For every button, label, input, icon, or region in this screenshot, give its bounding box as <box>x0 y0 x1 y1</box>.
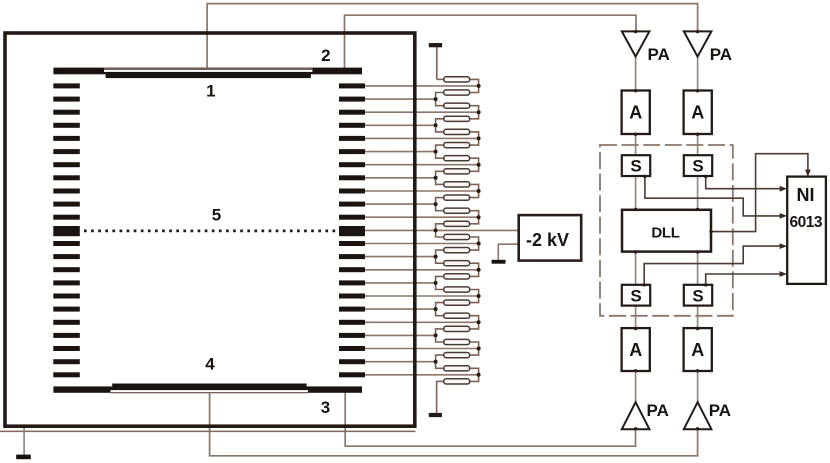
electrode ring 10 right segment <box>339 202 365 207</box>
electrode ring 22 right segment <box>339 359 365 364</box>
wire chain stub right R3-R4 <box>470 106 479 119</box>
electrode ring 1 left segment <box>53 83 80 88</box>
node n6 junction <box>434 150 438 154</box>
electrode ring 7 right segment <box>339 162 365 167</box>
switch S upper-right <box>684 155 712 176</box>
wire S to DLL (top) <box>635 176 637 210</box>
node n19 junction <box>477 320 481 324</box>
node n18 junction <box>434 307 438 311</box>
wire chain stub right R7-R8 <box>470 158 479 171</box>
electrode ring 14 right segment <box>339 254 365 259</box>
resistor R20 <box>444 326 470 331</box>
wire ring 1 to chain node n1 <box>365 85 479 87</box>
amplifier A lower-right <box>684 328 712 371</box>
electrode ring 4 left segment <box>53 123 80 128</box>
electrode ring 11 right segment <box>339 215 365 220</box>
electrode plate 2 (top outer) <box>53 68 362 75</box>
resistor R12 <box>444 221 470 226</box>
svg-text:1: 1 <box>206 81 215 100</box>
resistor R11 <box>444 208 470 213</box>
node n20 junction <box>434 333 438 337</box>
amplifier A upper-left <box>622 91 650 135</box>
electrode ring 9 right segment <box>339 189 365 194</box>
electrode ring 17 right segment <box>339 294 365 299</box>
switch S lower-right <box>684 285 712 306</box>
node n7 junction <box>477 163 481 167</box>
svg-text:PA: PA <box>647 401 669 420</box>
wire ring 5 (extraction grid) node n12 to -2 kV supply <box>365 229 519 231</box>
node n9 junction <box>477 189 481 193</box>
wire W4 electrode 4 to bottom-right PA <box>210 390 698 456</box>
electrode ring 5 right segment <box>339 136 365 141</box>
electrode 5 grid left segment <box>53 226 80 236</box>
svg-text:6013: 6013 <box>790 214 823 231</box>
node n21 junction <box>477 347 481 351</box>
wire chain stub right R1-R2 <box>470 79 479 92</box>
wire ring 13 to chain node n13 <box>365 243 479 245</box>
resistor R24 <box>444 379 470 384</box>
resistor R19 <box>444 313 470 318</box>
wire PA to A (top) <box>697 57 699 91</box>
electrode ring 21 right segment <box>339 346 365 351</box>
wire chain stub right R19-R20 <box>470 316 479 329</box>
wire S upper-left to NI 6013 <box>645 176 780 216</box>
electrode ring 23 right segment <box>339 372 365 377</box>
wire along chamber bottom <box>0 430 416 432</box>
node n12 junction <box>434 228 438 232</box>
node n17 junction <box>477 294 481 298</box>
node n4 junction <box>434 123 438 127</box>
wire A to PA (bottom) <box>635 371 637 402</box>
amplifier A upper-right <box>684 91 712 135</box>
svg-text:PA: PA <box>709 401 731 420</box>
delay-line DLL unit <box>622 210 711 252</box>
resistor R4 <box>444 116 470 121</box>
wire W3 electrode 3 to bottom-left PA <box>345 392 635 446</box>
resistor R13 <box>444 234 470 239</box>
node n1 junction <box>477 84 481 88</box>
node n13 junction <box>477 242 481 246</box>
wire ring 5 to chain node n5 <box>365 137 479 139</box>
wire DLL to S (bottom) <box>697 252 699 285</box>
wire chain stub left R8-R9 <box>436 171 444 184</box>
electrode ring 6 left segment <box>53 149 80 154</box>
wire DLL to NI 6013 top <box>711 154 808 232</box>
wire ring 11 to chain node n11 <box>365 216 479 218</box>
electrode 5 grid dotted line <box>84 230 338 233</box>
wire chain stub left R14-R15 <box>436 250 444 263</box>
electrode ring 8 left segment <box>53 175 80 180</box>
wire W2 electrode 2 to top-left PA <box>345 15 637 68</box>
wire W1 electrode 1 to top-right PA <box>207 4 697 73</box>
wire S lower-left to NI 6013 <box>644 246 780 285</box>
electrode ring 8 right segment <box>339 175 365 180</box>
resistor R18 <box>444 300 470 305</box>
preamp PA top-left <box>622 31 670 64</box>
wire ring 6 to chain node n6 <box>365 151 436 153</box>
resistor R6 <box>444 143 470 148</box>
svg-text:A: A <box>629 340 642 360</box>
electrode ring 17 left segment <box>53 294 80 299</box>
wire S upper-right to NI 6013 <box>706 176 780 189</box>
wire chain stub left R10-R11 <box>436 198 444 211</box>
node n2 junction <box>434 97 438 101</box>
svg-text:DLL: DLL <box>651 225 679 242</box>
preamp PA bottom-right <box>684 401 731 429</box>
electrode ring 4 right segment <box>339 123 365 128</box>
svg-text:A: A <box>691 103 704 123</box>
resistor R3 <box>444 103 470 108</box>
resistor R23 <box>444 366 470 371</box>
svg-text:-2 kV: -2 kV <box>526 230 569 250</box>
resistor R15 <box>444 261 470 266</box>
electrode ring 5 left segment <box>53 136 80 141</box>
wire chain stub right R11-R12 <box>470 211 479 224</box>
wire chain stub right R15-R16 <box>470 263 479 276</box>
electrode ring 11 left segment <box>53 215 80 220</box>
node n15 junction <box>477 268 481 272</box>
wire A to S (top) <box>635 134 637 155</box>
svg-text:S: S <box>630 286 641 305</box>
resistor R1 <box>444 77 470 82</box>
svg-text:PA: PA <box>710 45 732 64</box>
wire ring 21 to chain node n21 <box>365 348 479 350</box>
wire ring 15 to chain node n15 <box>365 269 479 271</box>
electrode ring 19 left segment <box>53 320 80 325</box>
electrode ring 20 right segment <box>339 333 365 338</box>
electrode ring 15 left segment <box>53 267 80 272</box>
wire chain stub right R23-R24 <box>470 368 479 381</box>
electrode ring 15 right segment <box>339 267 365 272</box>
electrode ring 21 left segment <box>53 346 80 351</box>
wire chain stub left R6-R7 <box>436 145 444 158</box>
node n14 junction <box>434 255 438 259</box>
svg-text:3: 3 <box>321 398 330 417</box>
wire chain stub right R21-R22 <box>470 342 479 355</box>
resistor R21 <box>444 339 470 344</box>
ground -2 kV supply <box>492 260 506 264</box>
wire chain stub left R22-R23 <box>436 355 444 368</box>
wire ring 9 to chain node n9 <box>365 190 479 192</box>
electrode ring 13 left segment <box>53 241 80 246</box>
wire ring 19 to chain node n19 <box>365 321 479 323</box>
electrode ring 7 left segment <box>53 162 80 167</box>
wire ring 4 to chain node n4 <box>365 124 436 126</box>
electrode ring 18 right segment <box>339 307 365 312</box>
wire ring 23 to chain node n23 <box>365 374 479 376</box>
electrode ring 6 right segment <box>339 149 365 154</box>
wire A to S (top) <box>697 134 699 155</box>
wire ring 2 to chain node n2 <box>365 98 436 100</box>
wire chain stub left R20-R21 <box>436 329 444 342</box>
wire chain stub left R16-R17 <box>436 276 444 289</box>
dashed enclosure DLL switching unit <box>600 145 733 316</box>
preamp PA top-right <box>684 31 732 64</box>
electrode ring 10 left segment <box>53 202 80 207</box>
svg-text:2: 2 <box>321 46 330 65</box>
wire DLL to S (bottom) <box>635 252 637 285</box>
wire ring 20 to chain node n20 <box>365 334 436 336</box>
vacuum chamber enclosure <box>5 33 415 426</box>
node n22 junction <box>434 360 438 364</box>
electrode ring 2 right segment <box>339 97 365 102</box>
wire chain stub left R4-R5 <box>436 119 444 132</box>
resistor R16 <box>444 274 470 279</box>
wire PA to A (top) <box>635 57 637 91</box>
svg-text:S: S <box>692 157 703 176</box>
wire chain stub right R13-R14 <box>470 237 479 250</box>
wire ring 3 to chain node n3 <box>365 111 479 113</box>
wire ring 7 to chain node n7 <box>365 164 479 166</box>
resistor R17 <box>444 287 470 292</box>
resistor R14 <box>444 248 470 253</box>
electrode ring 1 right segment <box>339 83 365 88</box>
preamp PA bottom-left <box>622 401 669 429</box>
wire A to PA (bottom) <box>697 371 699 402</box>
wire ring 8 to chain node n8 <box>365 177 436 179</box>
electrode ring 23 left segment <box>53 372 80 377</box>
node n23 junction <box>477 373 481 377</box>
svg-text:S: S <box>630 157 641 176</box>
switch S lower-left <box>622 285 650 306</box>
svg-text:A: A <box>629 103 642 123</box>
svg-text:A: A <box>691 340 704 360</box>
wire chain stub right R9-R10 <box>470 184 479 197</box>
node n5 junction <box>477 136 481 140</box>
svg-text:NI: NI <box>797 185 815 205</box>
wire ring 10 to chain node n10 <box>365 203 436 205</box>
node n11 junction <box>477 215 481 219</box>
wire chain stub left R12-R13 <box>436 224 444 237</box>
electrode ring 13 right segment <box>339 241 365 246</box>
electrode ring 22 left segment <box>53 359 80 364</box>
electrode ring 14 left segment <box>53 254 80 259</box>
electrode plate 1 (top inner) <box>106 72 311 78</box>
wire ring 22 to chain node n22 <box>365 361 436 363</box>
wire chain stub left R18-R19 <box>436 303 444 316</box>
resistor R10 <box>444 195 470 200</box>
wire -2 kV supply to ground <box>498 244 518 260</box>
DAQ card NI 6013 <box>787 177 826 284</box>
wire S lower-right to NI 6013 <box>706 274 780 285</box>
resistor R9 <box>444 182 470 187</box>
electrode ring 2 left segment <box>53 97 80 102</box>
terminal top of divider chain <box>429 43 442 79</box>
wire ring 16 to chain node n16 <box>365 282 436 284</box>
wire S to A (bottom) <box>697 305 699 328</box>
electrode ring 16 right segment <box>339 280 365 285</box>
electrode plate 4 (bottom inner) <box>112 384 306 390</box>
svg-text:PA: PA <box>648 45 670 64</box>
wire chain stub right R5-R6 <box>470 132 479 145</box>
wire ring 14 to chain node n14 <box>365 256 436 258</box>
resistor R22 <box>444 353 470 358</box>
electrode ring 18 left segment <box>53 307 80 312</box>
amplifier A lower-left <box>622 328 650 371</box>
resistor R5 <box>444 129 470 134</box>
electrode ring 19 right segment <box>339 320 365 325</box>
wire R24 to bottom terminal <box>437 381 444 413</box>
electrode ring 9 left segment <box>53 189 80 194</box>
svg-text:S: S <box>692 286 703 305</box>
terminal bottom of divider chain <box>429 413 442 417</box>
electrode ring 3 left segment <box>53 110 80 115</box>
resistor R2 <box>444 90 470 95</box>
wire chain stub right R17-R18 <box>470 290 479 303</box>
wire terminal to R1 <box>437 78 444 80</box>
node n10 junction <box>434 202 438 206</box>
ground chamber <box>16 428 31 459</box>
wire chain stub left R2-R3 <box>436 93 444 106</box>
svg-text:5: 5 <box>212 205 221 224</box>
wire S to A (bottom) <box>635 305 637 328</box>
wire ring 17 to chain node n17 <box>365 295 479 297</box>
node n8 junction <box>434 176 438 180</box>
electrode ring 16 left segment <box>53 280 80 285</box>
resistor R7 <box>444 156 470 161</box>
power supply -2 kV <box>519 215 582 261</box>
svg-text:4: 4 <box>205 355 215 374</box>
junction dots electronics <box>634 30 713 431</box>
electrode ring 3 right segment <box>339 110 365 115</box>
resistor R8 <box>444 169 470 174</box>
electrode plate 3 (bottom outer) <box>53 386 362 392</box>
wire S to DLL (top) <box>697 176 699 210</box>
switch S upper-left <box>622 155 650 176</box>
electrode ring 20 left segment <box>53 333 80 338</box>
wire ring 18 to chain node n18 <box>365 308 436 310</box>
node n3 junction <box>477 110 481 114</box>
electrode 5 grid right segment <box>339 226 365 236</box>
node n16 junction <box>434 281 438 285</box>
